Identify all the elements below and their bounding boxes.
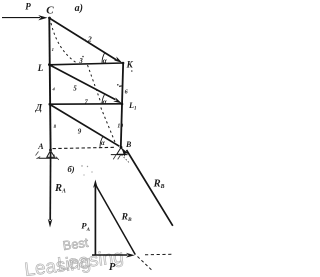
svg-text:L: L xyxy=(37,63,44,73)
node L xyxy=(48,63,51,66)
svg-text:RB: RB xyxy=(121,213,132,224)
svg-text:К: К xyxy=(126,59,134,69)
angle arc at K xyxy=(102,52,105,63)
svg-text:α: α xyxy=(101,140,105,147)
svg-text:С: С xyxy=(46,5,54,17)
node L1 xyxy=(121,103,124,106)
svg-text:P: P xyxy=(25,2,31,12)
svg-text:А: А xyxy=(37,142,44,151)
svg-text:а): а) xyxy=(75,3,83,14)
dashed extension diagonal xyxy=(138,257,153,271)
svg-text:8: 8 xyxy=(54,125,57,130)
diagonal D-B (member 9) xyxy=(50,105,119,147)
node D xyxy=(49,103,52,106)
dashed section line panel 2 xyxy=(88,65,102,103)
force triangle horizontal side P xyxy=(92,254,128,256)
angle arc at B xyxy=(100,136,103,147)
reaction R_A arrow xyxy=(49,152,51,220)
node C xyxy=(48,17,51,20)
node K xyxy=(122,62,125,65)
svg-text:α: α xyxy=(103,98,108,106)
svg-text:RA: RA xyxy=(54,183,66,195)
diagonal L-L1 (member 5) xyxy=(49,65,115,100)
svg-text:9: 9 xyxy=(78,128,82,136)
dashed extension right xyxy=(145,253,174,256)
svg-text:2: 2 xyxy=(87,34,92,43)
right chord K-L1-B (members 6,10) xyxy=(121,62,123,148)
node B xyxy=(120,146,123,149)
support at B xyxy=(117,148,126,155)
left chord C-L-D-A (members 1,4,8) xyxy=(49,17,50,152)
svg-text:RB: RB xyxy=(153,178,165,190)
force triangle vertical side xyxy=(94,184,96,255)
diagonal C-K (member 2) xyxy=(50,19,117,61)
scan specks xyxy=(117,84,119,86)
svg-text:PA: PA xyxy=(81,220,90,233)
node A xyxy=(49,149,52,152)
svg-text:L1: L1 xyxy=(128,101,137,112)
svg-text:P: P xyxy=(109,262,116,273)
top horizontal L-K (member 3) xyxy=(49,63,123,65)
bottom dashed chord A-B xyxy=(53,147,116,148)
svg-text:6: 6 xyxy=(125,89,129,96)
svg-text:3: 3 xyxy=(78,57,83,65)
mid horizontal D-L1 (member 7) xyxy=(50,103,123,105)
dashed section line panel 3 xyxy=(101,108,116,145)
svg-text:1: 1 xyxy=(52,47,54,52)
angle arc at L1 xyxy=(102,95,104,104)
support at A xyxy=(47,151,55,158)
svg-text:4: 4 xyxy=(52,86,56,91)
dashed section line panel 1 xyxy=(51,23,76,63)
svg-text:б): б) xyxy=(68,164,75,174)
force triangle diagonal R_B xyxy=(96,186,135,255)
svg-text:10: 10 xyxy=(117,123,123,129)
reaction R_B arrow xyxy=(127,150,173,226)
svg-text:5: 5 xyxy=(73,85,77,93)
svg-text:В: В xyxy=(125,140,132,149)
force P arrow xyxy=(2,17,40,19)
svg-text:Д: Д xyxy=(35,103,43,113)
